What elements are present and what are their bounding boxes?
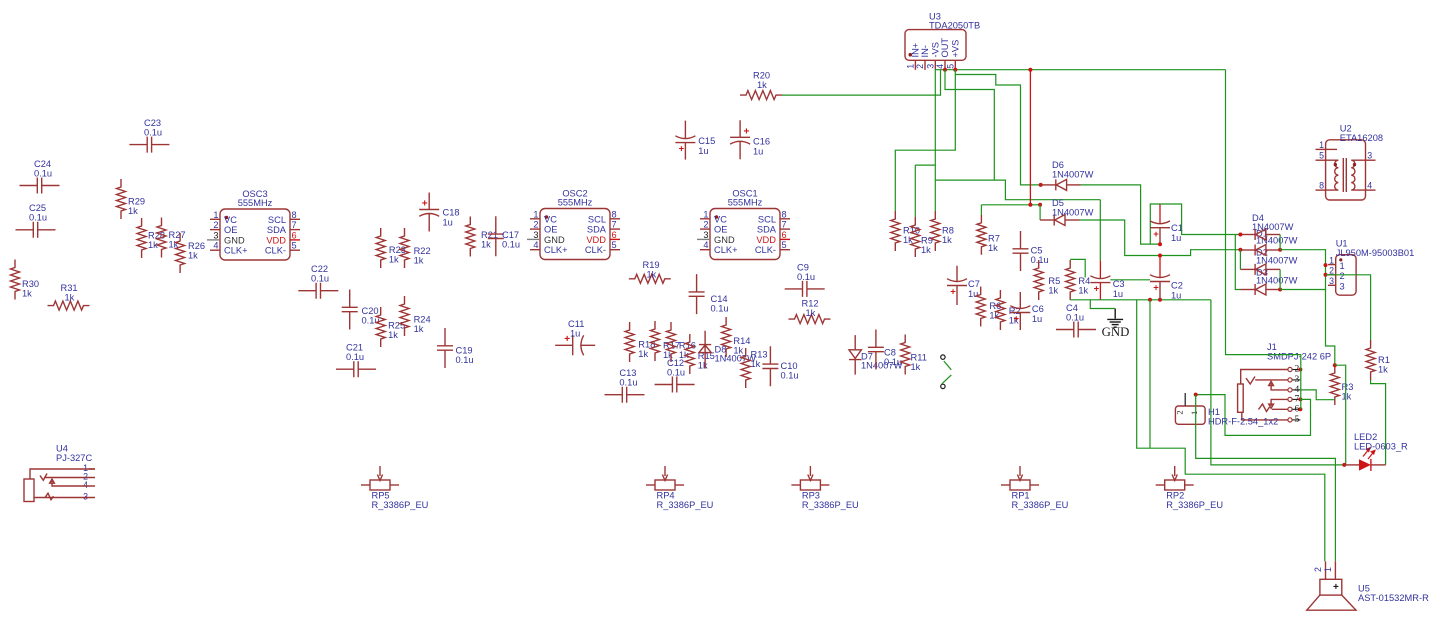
svg-text:PJ-327C: PJ-327C <box>56 453 92 463</box>
wire <box>1110 279 1150 281</box>
wire <box>1239 250 1241 270</box>
capacitor C6 <box>1010 292 1043 330</box>
wire <box>1099 200 1101 261</box>
switch contact top <box>941 355 945 359</box>
op-amp U3 TDA2050TB <box>905 12 980 70</box>
junction <box>943 68 947 72</box>
junction <box>1194 393 1198 397</box>
resistor R23 <box>376 228 406 268</box>
diode D8 <box>699 331 756 369</box>
svg-text:4: 4 <box>533 240 538 250</box>
wire <box>1090 300 1115 309</box>
ground GND <box>1102 309 1130 339</box>
wire <box>1300 390 1334 400</box>
svg-text:1: 1 <box>1329 255 1334 265</box>
svg-text:U1: U1 <box>1336 239 1348 249</box>
wire <box>1196 395 1311 436</box>
svg-text:R14: R14 <box>733 336 750 346</box>
resistor R28 <box>137 218 165 258</box>
resistor R7 <box>977 215 1000 255</box>
wire <box>1039 205 1041 220</box>
svg-text:GND: GND <box>1102 325 1130 339</box>
capacitor C15 <box>675 121 715 160</box>
svg-text:0.1u: 0.1u <box>502 240 520 250</box>
svg-text:2: 2 <box>213 220 218 230</box>
diode bridge D4 (D1-D3) <box>1240 213 1297 295</box>
resistor R17 <box>651 321 681 361</box>
svg-text:3: 3 <box>1340 282 1345 292</box>
wire <box>1150 204 1160 244</box>
svg-text:1N4007W: 1N4007W <box>1256 256 1298 266</box>
junction <box>1324 263 1328 267</box>
svg-text:RP1: RP1 <box>1012 491 1030 501</box>
IC U1 JL950M-95003B01 <box>1328 239 1414 296</box>
svg-text:0.1u: 0.1u <box>619 378 637 388</box>
resistor R9 <box>911 217 933 257</box>
svg-text:R9: R9 <box>921 236 933 246</box>
svg-text:2: 2 <box>1340 271 1345 281</box>
capacitor C5 <box>1013 231 1049 271</box>
junction <box>1333 363 1337 367</box>
capacitor C14 <box>689 274 729 314</box>
svg-text:C18: C18 <box>443 208 460 218</box>
wire <box>934 70 936 211</box>
diode D6 <box>1041 160 1094 190</box>
svg-text:LED-0603_R: LED-0603_R <box>1354 442 1408 452</box>
svg-text:R19: R19 <box>643 260 660 270</box>
svg-text:1u: 1u <box>698 146 708 156</box>
svg-text:1k: 1k <box>1342 392 1352 402</box>
LED LED2 <box>1344 432 1408 471</box>
svg-text:3: 3 <box>83 492 88 502</box>
svg-text:AST-01532MR-R: AST-01532MR-R <box>1358 593 1429 603</box>
svg-text:CLK-: CLK- <box>755 245 776 255</box>
svg-text:555MHz: 555MHz <box>728 198 763 208</box>
wire <box>782 70 941 95</box>
svg-text:C8: C8 <box>884 348 896 358</box>
svg-text:8: 8 <box>612 209 617 219</box>
svg-text:C13: C13 <box>619 368 636 378</box>
wire <box>1070 259 1085 277</box>
capacitor C13 <box>605 368 645 403</box>
resistor R12 <box>789 299 831 324</box>
svg-text:U5: U5 <box>1358 584 1370 594</box>
svg-text:1k: 1k <box>911 362 921 372</box>
svg-text:C14: C14 <box>711 294 728 304</box>
svg-text:CLK+: CLK+ <box>224 246 248 256</box>
svg-text:R29: R29 <box>128 197 145 207</box>
wire <box>1070 299 1211 301</box>
svg-text:1: 1 <box>1340 261 1345 271</box>
svg-text:C23: C23 <box>144 118 161 128</box>
svg-text:R7: R7 <box>988 234 1000 244</box>
svg-text:CLK-: CLK- <box>585 245 606 255</box>
resistor R3 <box>1330 365 1353 405</box>
svg-text:1k: 1k <box>1378 365 1388 375</box>
wire <box>1080 220 1241 256</box>
svg-text:TDA2050TB: TDA2050TB <box>929 21 980 31</box>
svg-text:1k: 1k <box>733 346 743 356</box>
svg-text:GND: GND <box>224 235 245 245</box>
svg-text:8: 8 <box>782 209 787 219</box>
svg-text:R13: R13 <box>751 350 768 360</box>
svg-text:VDD: VDD <box>756 235 776 245</box>
wire <box>955 75 1040 185</box>
svg-text:C25: C25 <box>29 203 46 213</box>
junction <box>1038 203 1042 207</box>
junction <box>1039 183 1043 187</box>
svg-text:1: 1 <box>213 210 218 220</box>
svg-text:8: 8 <box>292 210 297 220</box>
svg-text:4: 4 <box>83 480 88 490</box>
resistor R11 <box>901 335 927 375</box>
wire <box>981 204 1040 206</box>
svg-text:OE: OE <box>714 225 727 235</box>
resistor R30 <box>11 260 40 300</box>
svg-text:1k: 1k <box>638 349 648 359</box>
svg-text:C4: C4 <box>1066 303 1078 313</box>
wire <box>935 69 1225 71</box>
svg-text:R1: R1 <box>1378 355 1390 365</box>
svg-text:J1: J1 <box>1267 342 1277 352</box>
junction <box>1298 407 1302 411</box>
svg-text:SDA: SDA <box>757 225 777 235</box>
junction <box>1298 397 1302 401</box>
junction <box>1028 68 1032 72</box>
svg-text:3: 3 <box>533 230 538 240</box>
svg-text:2: 2 <box>533 220 538 230</box>
svg-text:0.1u: 0.1u <box>29 213 47 223</box>
svg-text:R26: R26 <box>188 241 205 251</box>
wire <box>1235 235 1240 290</box>
IC OSC1 555 timer <box>697 189 790 260</box>
svg-text:C2: C2 <box>1171 281 1183 291</box>
svg-text:0.1u: 0.1u <box>781 371 799 381</box>
svg-text:1k: 1k <box>988 243 998 253</box>
svg-text:1u: 1u <box>443 218 453 228</box>
svg-text:1k: 1k <box>65 293 75 303</box>
svg-text:8: 8 <box>1319 181 1324 191</box>
svg-text:5: 5 <box>782 240 787 250</box>
capacitor C8 <box>868 330 902 370</box>
svg-text:R11: R11 <box>911 353 927 363</box>
junction <box>1278 248 1282 252</box>
wire <box>1280 289 1325 291</box>
wire <box>1149 300 1151 448</box>
svg-text:C15: C15 <box>698 136 715 146</box>
svg-text:C20: C20 <box>362 306 379 316</box>
resistor R5 <box>1034 260 1060 300</box>
resistor R15 <box>685 334 715 374</box>
svg-text:+: + <box>679 144 685 155</box>
svg-text:6: 6 <box>292 230 297 240</box>
svg-text:C10: C10 <box>781 361 798 371</box>
capacitor C3 <box>1090 261 1124 300</box>
junction <box>1298 368 1302 372</box>
resistor R25 <box>376 307 405 347</box>
svg-text:RP4: RP4 <box>657 491 675 501</box>
svg-text:C12: C12 <box>667 358 684 368</box>
speaker U5 AST-01532MR-R <box>1307 561 1429 610</box>
svg-text:1N4007W: 1N4007W <box>1256 236 1298 246</box>
wire <box>1196 395 1336 562</box>
resistor R13 <box>741 348 767 388</box>
svg-text:R24: R24 <box>414 315 431 325</box>
svg-text:1k: 1k <box>128 206 138 216</box>
resistor R22 <box>400 228 431 268</box>
resistor R16 <box>667 322 696 362</box>
resistor R31 <box>48 283 90 310</box>
wire <box>980 205 982 215</box>
svg-text:SDA: SDA <box>587 225 607 235</box>
junction <box>1148 298 1152 302</box>
capacitor C21 <box>336 343 376 378</box>
svg-text:4: 4 <box>935 64 945 69</box>
IC OSC3 555 timer <box>207 189 300 260</box>
svg-text:C16: C16 <box>753 136 770 146</box>
junction <box>1158 242 1162 246</box>
svg-text:SDA: SDA <box>267 225 287 235</box>
svg-text:2: 2 <box>703 220 708 230</box>
svg-text:R27: R27 <box>169 230 186 240</box>
junction <box>1028 203 1032 207</box>
svg-text:555MHz: 555MHz <box>558 198 593 208</box>
svg-text:RP3: RP3 <box>802 491 820 501</box>
potentiometer RP1 <box>1001 466 1068 510</box>
switch contact bottom <box>941 384 945 388</box>
svg-text:1: 1 <box>703 209 708 219</box>
capacitor C2 <box>1150 256 1183 301</box>
capacitor C7 <box>947 266 980 305</box>
wire <box>914 165 916 217</box>
svg-text:5: 5 <box>1319 151 1324 161</box>
wire <box>1211 300 1344 465</box>
junction <box>1158 254 1162 258</box>
svg-text:0.1u: 0.1u <box>797 272 815 282</box>
resistor R14 <box>722 317 751 357</box>
svg-text:R20: R20 <box>753 71 770 81</box>
svg-text:1k: 1k <box>22 289 32 299</box>
wire <box>1137 300 1325 562</box>
svg-text:3: 3 <box>1367 151 1372 161</box>
svg-text:0.1u: 0.1u <box>1031 255 1049 265</box>
resistor R24 <box>400 296 431 336</box>
svg-text:5: 5 <box>292 241 297 251</box>
svg-text:R_3386P_EU: R_3386P_EU <box>1166 500 1223 510</box>
svg-text:SCL: SCL <box>268 215 286 225</box>
svg-text:C6: C6 <box>1032 304 1044 314</box>
capacitor C17 <box>488 216 520 256</box>
potentiometer RP2 <box>1156 466 1223 510</box>
capacitor C23 <box>129 118 169 153</box>
svg-text:R8: R8 <box>942 226 954 236</box>
capacitor C25 <box>16 203 56 238</box>
svg-text:R30: R30 <box>22 279 39 289</box>
resistor R21 <box>466 217 498 257</box>
svg-text:3: 3 <box>926 64 936 69</box>
svg-text:2: 2 <box>1175 410 1185 414</box>
svg-text:R12: R12 <box>802 299 819 309</box>
svg-text:0.1u: 0.1u <box>456 355 474 365</box>
svg-text:1u: 1u <box>570 329 580 339</box>
svg-text:1k: 1k <box>481 240 491 250</box>
resistor R4 <box>1066 260 1091 300</box>
svg-text:4: 4 <box>703 240 708 250</box>
svg-text:+: + <box>950 287 956 298</box>
resistor R29 <box>117 179 146 219</box>
svg-text:1k: 1k <box>757 80 767 90</box>
wire <box>915 164 935 166</box>
svg-text:IN+: IN+ <box>911 43 921 58</box>
wire <box>895 70 955 211</box>
potentiometer RP4 <box>646 466 713 510</box>
svg-text:1k: 1k <box>188 251 198 261</box>
svg-text:+: + <box>1014 314 1020 325</box>
svg-text:2: 2 <box>1313 567 1323 572</box>
svg-text:R_3386P_EU: R_3386P_EU <box>802 500 859 510</box>
svg-text:CLK-: CLK- <box>265 246 286 256</box>
junction <box>1238 233 1242 237</box>
svg-text:+: + <box>1333 582 1339 593</box>
svg-text:5: 5 <box>1295 415 1300 425</box>
svg-text:7: 7 <box>612 220 617 230</box>
capacitor C1 <box>1150 204 1183 244</box>
svg-text:GND: GND <box>544 235 565 245</box>
svg-text:D6: D6 <box>1052 160 1064 170</box>
wire <box>942 375 952 384</box>
svg-text:1u: 1u <box>1113 289 1123 299</box>
resistor R18 <box>625 322 655 362</box>
svg-text:C11: C11 <box>568 319 584 329</box>
diode D5 <box>1040 198 1093 226</box>
svg-text:0.1u: 0.1u <box>711 304 729 314</box>
svg-text:RP2: RP2 <box>1166 491 1184 501</box>
svg-text:1: 1 <box>533 209 538 219</box>
capacitor C24 <box>20 159 60 194</box>
capacitor C19 <box>437 328 474 368</box>
svg-text:R4: R4 <box>1078 276 1090 286</box>
svg-text:1k: 1k <box>806 308 816 318</box>
svg-text:3: 3 <box>703 230 708 240</box>
svg-text:C17: C17 <box>502 230 519 240</box>
svg-text:1k: 1k <box>389 255 399 265</box>
svg-text:SCL: SCL <box>588 214 606 224</box>
svg-text:R_3386P_EU: R_3386P_EU <box>1012 500 1069 510</box>
svg-text:0.1u: 0.1u <box>667 368 685 378</box>
capacitor C9 <box>785 263 825 297</box>
svg-text:VDD: VDD <box>266 235 286 245</box>
svg-text:C19: C19 <box>456 346 473 356</box>
svg-text:VDD: VDD <box>586 235 606 245</box>
resistor R6 <box>976 287 1001 327</box>
svg-text:2: 2 <box>1329 266 1334 276</box>
svg-text:R_3386P_EU: R_3386P_EU <box>372 500 429 510</box>
svg-text:C24: C24 <box>34 159 51 169</box>
wire red <box>1029 70 1031 205</box>
svg-text:1N4007W: 1N4007W <box>1256 276 1298 286</box>
resistor R10 <box>891 211 920 251</box>
svg-text:1k: 1k <box>388 330 398 340</box>
wire <box>935 180 1100 200</box>
resistor R20 <box>740 71 782 100</box>
svg-text:7: 7 <box>782 220 787 230</box>
svg-text:2: 2 <box>915 64 925 69</box>
svg-text:+: + <box>422 199 428 210</box>
connector J1 SMDPJ-242 <box>1238 342 1331 425</box>
svg-text:+: + <box>1153 283 1159 294</box>
svg-text:GND: GND <box>714 235 735 245</box>
svg-text:1: 1 <box>1189 411 1199 415</box>
svg-text:+: + <box>1094 284 1100 295</box>
resistor R19 <box>629 260 671 283</box>
svg-text:4: 4 <box>1295 385 1300 395</box>
svg-text:SCL: SCL <box>758 214 776 224</box>
svg-text:C7: C7 <box>968 279 980 289</box>
junction <box>1158 298 1162 302</box>
transformer U2 ETA16208 <box>1316 124 1384 201</box>
svg-text:0.1u: 0.1u <box>346 352 364 362</box>
capacitor C12 <box>655 358 695 393</box>
junction <box>1342 463 1346 467</box>
svg-text:C5: C5 <box>1031 246 1043 256</box>
svg-text:1u: 1u <box>753 146 763 156</box>
potentiometer RP5 <box>361 466 428 510</box>
svg-text:C21: C21 <box>346 343 363 353</box>
svg-text:+VS: +VS <box>951 40 961 58</box>
capacitor C11 <box>555 319 595 355</box>
wire <box>1371 380 1386 465</box>
wire <box>1081 185 1161 244</box>
svg-text:4: 4 <box>213 241 218 251</box>
junction <box>1278 288 1282 292</box>
svg-text:LED2: LED2 <box>1354 432 1377 442</box>
svg-text:555MHz: 555MHz <box>238 198 273 208</box>
capacitor C18 <box>419 193 459 232</box>
svg-text:1k: 1k <box>414 256 424 266</box>
wire <box>1335 365 1346 465</box>
wire <box>944 361 952 370</box>
svg-text:VC: VC <box>224 215 237 225</box>
svg-text:1: 1 <box>906 64 916 69</box>
svg-text:JL950M-95003B01: JL950M-95003B01 <box>1336 248 1415 258</box>
svg-text:ETA16208: ETA16208 <box>1340 133 1383 143</box>
svg-text:3: 3 <box>1295 375 1300 385</box>
svg-text:1u: 1u <box>1171 291 1181 301</box>
svg-text:VC: VC <box>714 214 727 224</box>
svg-text:OUT: OUT <box>940 38 950 58</box>
svg-text:0.1u: 0.1u <box>144 128 162 138</box>
svg-text:7: 7 <box>292 220 297 230</box>
svg-text:1u: 1u <box>1171 233 1181 243</box>
svg-text:R22: R22 <box>414 246 431 256</box>
svg-text:R_3386P_EU: R_3386P_EU <box>657 500 714 510</box>
svg-text:CLK+: CLK+ <box>714 245 738 255</box>
svg-text:5: 5 <box>612 240 617 250</box>
wire <box>1300 370 1302 410</box>
resistor R8 <box>931 211 954 251</box>
wire <box>1280 250 1335 366</box>
svg-text:1k: 1k <box>1048 286 1058 296</box>
svg-text:+: + <box>1153 229 1159 240</box>
svg-text:-VS: -VS <box>931 42 941 58</box>
svg-text:R3: R3 <box>1342 382 1354 392</box>
IC OSC2 555 timer <box>527 189 620 260</box>
junction <box>953 68 957 72</box>
svg-text:D5: D5 <box>1052 198 1064 208</box>
wire <box>1326 275 1371 340</box>
header H1 HDR-F-2.54 <box>1175 393 1279 427</box>
svg-text:1N4007W: 1N4007W <box>1052 170 1094 180</box>
